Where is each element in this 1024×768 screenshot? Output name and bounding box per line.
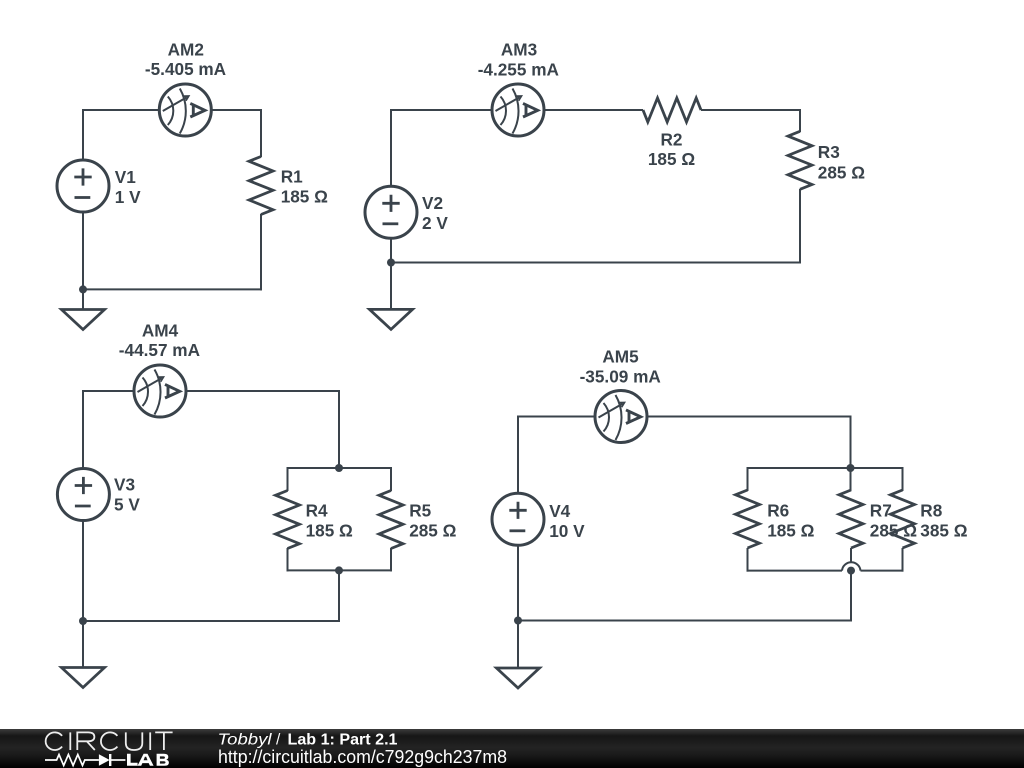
label AM5	[602, 347, 639, 367]
wire R5 bottom lead	[390, 548, 392, 571]
ammeter AM3	[492, 84, 544, 136]
wire R1 top lead	[260, 109, 262, 157]
wire R5 top lead	[390, 467, 392, 491]
label V2	[422, 193, 448, 233]
svg-text:Lab 1: Part 2.1: Lab 1: Part 2.1	[288, 732, 398, 749]
wire C4 parallel top rail	[747, 467, 904, 469]
label V1	[115, 167, 141, 207]
label R6	[767, 500, 814, 540]
wire C1 top	[83, 109, 261, 111]
node C3 parallel bottom junction	[335, 566, 343, 574]
resistor R1	[249, 157, 273, 215]
ground	[497, 668, 540, 688]
wire C3 top	[83, 390, 339, 392]
svg-text:R5: R5	[409, 500, 431, 520]
logo resistor symbol	[45, 755, 99, 766]
wire R8 top lead	[902, 467, 904, 491]
svg-text:385 Ω: 385 Ω	[920, 521, 967, 541]
svg-text:-35.09 mA: -35.09 mA	[580, 366, 661, 386]
ground	[370, 309, 413, 329]
wire R3 bottom lead	[799, 189, 801, 264]
node C4 parallel top junction	[847, 464, 855, 472]
ground	[62, 310, 105, 330]
svg-text:R4: R4	[306, 500, 328, 520]
wire C3 parallel top rail	[287, 467, 393, 469]
svg-text:V4: V4	[549, 501, 570, 521]
resistor R2	[643, 98, 701, 122]
svg-text:10 V: 10 V	[549, 521, 585, 541]
svg-text:-4.255 mA: -4.255 mA	[478, 60, 559, 80]
wire C3 feed	[338, 390, 340, 468]
wire C1 ground stem	[82, 289, 84, 310]
wire C1 bottom	[82, 288, 262, 290]
wire C3 down from parallel	[338, 570, 340, 621]
wire C4 bottom	[517, 620, 852, 622]
svg-text:V2: V2	[422, 193, 443, 213]
label AM4 value	[119, 340, 200, 360]
ground	[62, 668, 105, 688]
svg-text:185 Ω: 185 Ω	[648, 149, 695, 169]
wire C2 top right of R2	[701, 109, 800, 111]
resistor R7	[839, 490, 863, 548]
label R5	[409, 500, 456, 540]
wire R7 top lead	[850, 467, 852, 491]
svg-text:1 V: 1 V	[115, 187, 141, 207]
svg-text:R8: R8	[920, 500, 942, 520]
wire C3 left	[82, 390, 84, 622]
wire R6 bottom lead	[747, 548, 749, 572]
node C3 parallel top junction	[335, 464, 343, 472]
svg-text:R3: R3	[818, 142, 840, 162]
svg-text:285 Ω: 285 Ω	[870, 521, 917, 541]
ammeter AM2	[159, 84, 211, 136]
svg-text:R6: R6	[767, 500, 789, 520]
svg-text:2 V: 2 V	[422, 213, 448, 233]
wire C1 left	[82, 109, 84, 290]
svg-text:AM2: AM2	[168, 40, 204, 60]
wire C4 feed	[850, 416, 852, 469]
svg-text:185 Ω: 185 Ω	[767, 521, 814, 541]
svg-text:V3: V3	[114, 474, 135, 494]
wire C4 ground stem	[517, 621, 519, 670]
svg-text:AM3: AM3	[501, 40, 537, 60]
svg-text:AM4: AM4	[142, 320, 179, 340]
label R3	[818, 142, 865, 183]
wire C4 bottom rail left	[747, 570, 843, 572]
label AM2 value	[145, 59, 226, 79]
ammeter AM4	[134, 365, 186, 417]
label AM3	[501, 40, 537, 60]
wire C3 bottom	[82, 620, 340, 622]
node C1 ground junction	[79, 285, 87, 293]
wire C2 left	[390, 109, 392, 263]
svg-text:185 Ω: 185 Ω	[281, 187, 328, 207]
label V3	[114, 474, 140, 514]
resistor R5	[379, 491, 403, 549]
svg-text:185 Ω: 185 Ω	[306, 521, 353, 541]
wire C4 below hop	[850, 571, 852, 621]
label R1	[281, 167, 328, 207]
label R4	[306, 500, 353, 540]
wire C2 top left of R2	[391, 109, 643, 111]
svg-text:5 V: 5 V	[114, 494, 140, 514]
wire R7 bottom lead	[850, 548, 852, 563]
wire C2 bottom	[390, 262, 801, 264]
svg-text:285 Ω: 285 Ω	[818, 163, 865, 183]
node C4 ground junction	[514, 617, 522, 625]
wire C4 top	[518, 416, 851, 418]
voltage source V4	[492, 493, 544, 545]
svg-text:-5.405 mA: -5.405 mA	[145, 59, 226, 79]
logo wordmark LAB	[127, 754, 169, 766]
wire C4 crossover hop	[842, 562, 861, 570]
svg-text:R2: R2	[661, 130, 683, 150]
label AM4	[142, 320, 179, 340]
label V4	[549, 501, 585, 541]
label R7	[870, 500, 917, 540]
wire C4 bottom rail right	[861, 570, 904, 572]
label R2	[648, 130, 695, 170]
wire R6 top lead	[747, 467, 749, 491]
wire R8 bottom lead	[902, 548, 904, 572]
resistor R6	[736, 490, 760, 548]
resistor R4	[276, 491, 300, 549]
wire C4 left	[517, 416, 519, 622]
label AM2	[168, 40, 204, 60]
svg-text:AM5: AM5	[602, 347, 639, 367]
svg-text:-44.57 mA: -44.57 mA	[119, 340, 200, 360]
label AM5 value	[580, 366, 661, 386]
svg-text:/: /	[276, 732, 281, 749]
label AM3 value	[478, 60, 559, 80]
voltage source V2	[365, 186, 417, 238]
node C3 ground junction	[79, 617, 87, 625]
resistor R8	[891, 490, 915, 548]
node C2 ground junction	[387, 259, 395, 267]
wire R4 top lead	[287, 467, 289, 491]
wire R3 top lead	[799, 109, 801, 132]
voltage source V1	[57, 160, 109, 212]
CircuitLab logo wordmark CIRCUIT	[46, 732, 173, 750]
wire C2 ground stem	[390, 263, 392, 311]
svg-text:V1: V1	[115, 167, 136, 187]
svg-text:R7: R7	[870, 500, 892, 520]
label R8	[920, 500, 967, 540]
voltage source V3	[57, 469, 109, 521]
node C4 crossover junction	[847, 567, 855, 575]
resistor R3	[788, 131, 812, 189]
svg-text:Tobbyl: Tobbyl	[218, 732, 273, 749]
ammeter AM5	[595, 391, 647, 443]
wire C3 ground stem	[82, 621, 84, 669]
svg-text:285 Ω: 285 Ω	[409, 521, 456, 541]
wire C3 parallel bottom rail	[287, 569, 393, 571]
svg-text:http://circuitlab.com/c792g9ch: http://circuitlab.com/c792g9ch237m8	[218, 747, 507, 767]
wire R1 bottom lead	[260, 214, 262, 290]
logo diode symbol	[99, 754, 110, 766]
svg-text:R1: R1	[281, 167, 303, 187]
wire R4 bottom lead	[287, 548, 289, 571]
